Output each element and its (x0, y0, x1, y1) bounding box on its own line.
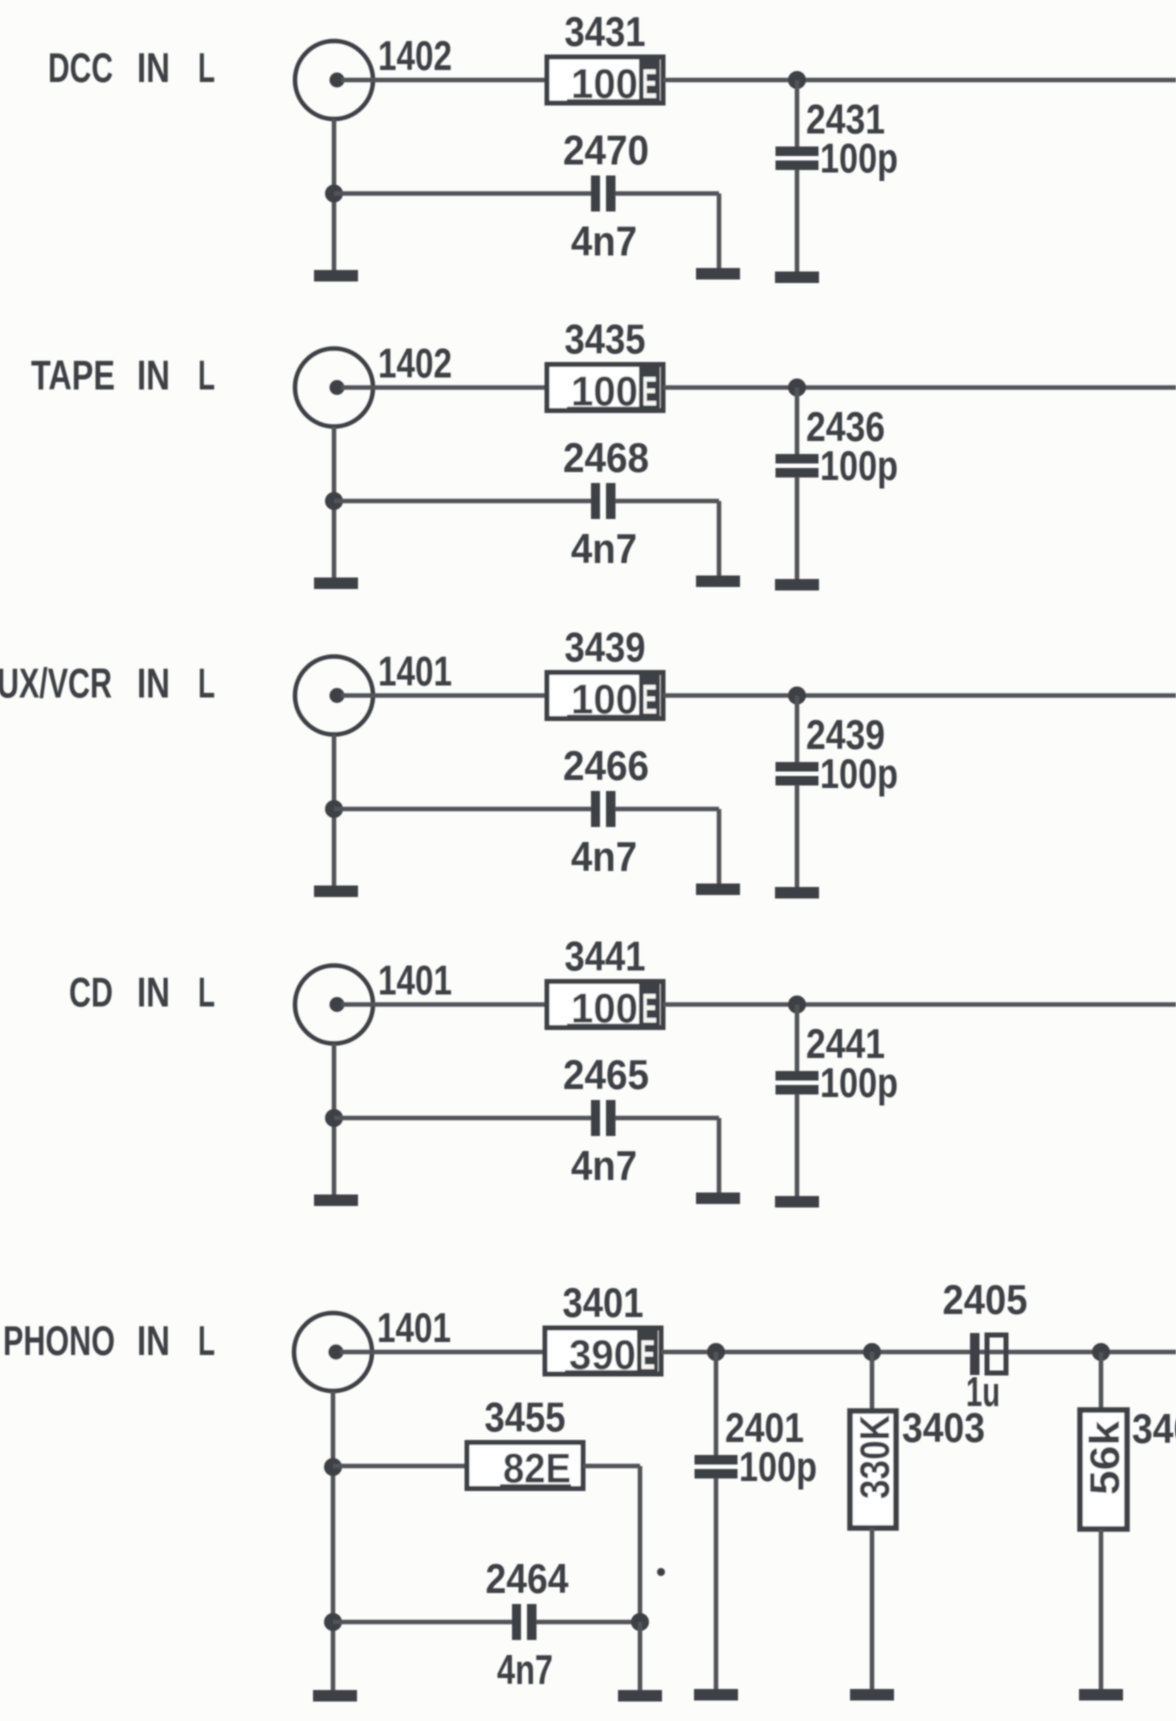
svg-text:4n7: 4n7 (497, 1646, 553, 1693)
ground (1079, 1689, 1123, 1701)
ground (314, 1195, 358, 1207)
svg-text:3431: 3431 (565, 8, 646, 55)
connector DCC IN L (RCA socket) (295, 41, 373, 119)
svg-text:CD: CD (69, 969, 113, 1016)
junction (325, 1109, 343, 1127)
connector AUX/VCR IN L (RCA socket) (295, 657, 373, 735)
wire (638, 1466, 643, 1622)
capacitor 2468 value 4n7 (591, 483, 616, 519)
junction (788, 379, 806, 397)
wire (583, 1464, 640, 1469)
svg-text:AUX/VCR: AUX/VCR (0, 660, 112, 707)
svg-text:4n7: 4n7 (571, 218, 637, 265)
svg-text:2465: 2465 (563, 1051, 649, 1098)
wire (615, 191, 719, 196)
wire (1099, 1529, 1104, 1689)
svg-text:100p: 100p (820, 442, 898, 489)
wire (717, 501, 722, 576)
svg-text:2464: 2464 (486, 1555, 570, 1602)
svg-text:1401: 1401 (377, 1304, 451, 1351)
wire (795, 80, 800, 149)
wire (334, 807, 592, 812)
ground (775, 272, 819, 284)
resistor 3441 value 100E (547, 982, 663, 1032)
ground (314, 578, 358, 590)
svg-text:100p: 100p (739, 1443, 817, 1490)
ground (314, 270, 358, 282)
wire (536, 1620, 640, 1625)
capacitor 2441 value 100p (776, 1071, 819, 1095)
wire (663, 78, 1176, 83)
junction (1092, 1343, 1110, 1361)
junction (631, 1613, 649, 1631)
junction (325, 185, 343, 203)
wire (331, 1391, 336, 1690)
wire (334, 1116, 592, 1121)
svg-text:1401: 1401 (378, 957, 452, 1004)
resistor 3404 value 56k (1080, 1410, 1128, 1529)
svg-text:1401: 1401 (378, 648, 452, 695)
svg-text:L: L (198, 969, 215, 1016)
svg-text:4n7: 4n7 (571, 833, 637, 880)
node PHONO input (3, 1317, 215, 1364)
svg-text:E: E (640, 1331, 655, 1378)
junction (324, 1458, 342, 1476)
svg-text:4n7: 4n7 (571, 1142, 637, 1189)
capacitor 2466 value 4n7 (591, 791, 616, 827)
ground (314, 886, 358, 898)
wire (1099, 1352, 1104, 1413)
svg-text:100p: 100p (820, 135, 898, 182)
wire (795, 1005, 800, 1074)
resistor 3455 value 82E (467, 1443, 583, 1492)
capacitor 2439 value 100p (776, 762, 819, 786)
node TAPE IN L input (31, 352, 215, 399)
wire (663, 693, 1176, 698)
ground (694, 1689, 738, 1701)
ground (313, 1690, 357, 1702)
wire (717, 809, 722, 884)
capacitor 2464 value 4n7 (512, 1604, 537, 1640)
svg-text:3401: 3401 (563, 1279, 644, 1326)
svg-text:2470: 2470 (563, 127, 649, 174)
svg-text:IN: IN (137, 44, 170, 91)
junction (325, 492, 343, 510)
ground (618, 1690, 662, 1702)
svg-text:100p: 100p (820, 1059, 898, 1106)
svg-text:3455: 3455 (485, 1394, 566, 1441)
wire (717, 1118, 722, 1193)
wire (795, 477, 800, 579)
wire (615, 807, 719, 812)
wire (341, 385, 547, 390)
svg-text:1402: 1402 (378, 340, 452, 387)
svg-text:E: E (642, 60, 657, 107)
junction (324, 1613, 342, 1631)
stray mark (657, 1568, 665, 1576)
svg-text:E: E (642, 368, 657, 415)
svg-text:3441: 3441 (565, 933, 646, 980)
wire (615, 1116, 719, 1121)
wire (661, 1350, 1176, 1355)
svg-text:1402: 1402 (378, 32, 452, 79)
svg-text:2405: 2405 (943, 1276, 1028, 1323)
svg-text:IN: IN (137, 1317, 170, 1364)
resistor 3403 value 330K (850, 1411, 898, 1528)
wire (333, 1620, 512, 1625)
wire (340, 1350, 544, 1355)
capacitor 2436 value 100p (776, 454, 819, 478)
svg-text:PHONO: PHONO (3, 1317, 115, 1364)
svg-text:3439: 3439 (565, 624, 646, 671)
capacitor 2405 value 1u (polarized) (970, 1333, 1006, 1375)
junction (788, 687, 806, 705)
ground (696, 576, 740, 588)
junction (788, 996, 806, 1014)
connector TAPE IN L (RCA socket) (295, 349, 373, 427)
svg-text:2468: 2468 (563, 434, 649, 481)
capacitor 2465 value 4n7 (591, 1100, 616, 1136)
junction (863, 1343, 881, 1361)
capacitor 2401 value 100p (695, 1455, 738, 1479)
wire (638, 1622, 643, 1690)
wire (663, 385, 1176, 390)
node CD IN L input (69, 969, 215, 1016)
wire (332, 735, 337, 886)
junction (788, 71, 806, 89)
wire (341, 78, 547, 83)
resistor 3401 value 390E (545, 1328, 661, 1378)
svg-text:2466: 2466 (563, 742, 649, 789)
wire (332, 427, 337, 578)
svg-text:330K: 330K (851, 1415, 898, 1499)
wire (714, 1352, 719, 1457)
wire (663, 1002, 1176, 1007)
ground (850, 1689, 894, 1701)
svg-text:IN: IN (137, 352, 170, 399)
wire (870, 1352, 875, 1414)
ground (775, 887, 819, 899)
node DCC IN L input (48, 44, 215, 91)
svg-text:L: L (198, 660, 215, 707)
svg-text:DCC: DCC (48, 44, 113, 91)
connector PHONO IN L (RCA socket) (294, 1313, 372, 1391)
svg-text:E: E (642, 676, 657, 723)
node AUX/VCR IN L input (0, 660, 215, 707)
capacitor 2470 value 4n7 (591, 176, 616, 212)
svg-text:3404: 3404 (1132, 1405, 1176, 1452)
ground (775, 1196, 819, 1208)
wire (795, 785, 800, 887)
svg-text:56k: 56k (1081, 1420, 1128, 1495)
wire (714, 1478, 719, 1689)
resistor 3439 value 100E (547, 673, 663, 723)
svg-text:1u: 1u (966, 1368, 1000, 1415)
wire (341, 693, 547, 698)
ground (775, 579, 819, 591)
wire (870, 1528, 875, 1689)
wire (333, 1464, 467, 1469)
svg-text:IN: IN (137, 969, 170, 1016)
svg-text:4n7: 4n7 (571, 525, 637, 572)
svg-text:L: L (198, 44, 215, 91)
resistor 3435 value 100E (547, 365, 663, 415)
svg-text:E: E (642, 985, 657, 1032)
wire (334, 191, 592, 196)
capacitor 2431 value 100p (776, 147, 819, 171)
svg-text:IN: IN (137, 660, 170, 707)
connector CD IN L (RCA socket) (295, 966, 373, 1044)
svg-text:L: L (198, 352, 215, 399)
wire (717, 194, 722, 269)
wire (341, 1002, 547, 1007)
junction (325, 800, 343, 818)
ground (696, 884, 740, 896)
junction (707, 1343, 725, 1361)
wire (332, 1044, 337, 1195)
ground (696, 1193, 740, 1205)
svg-text:TAPE: TAPE (31, 352, 115, 399)
ground (696, 268, 740, 280)
svg-text:3435: 3435 (565, 316, 646, 363)
svg-text:100p: 100p (820, 750, 898, 797)
wire (332, 119, 337, 270)
resistor 3431 value 100E (547, 57, 663, 107)
wire (795, 170, 800, 272)
wire (795, 1094, 800, 1196)
svg-text:L: L (198, 1317, 215, 1364)
wire (795, 388, 800, 457)
wire (334, 499, 592, 504)
wire (615, 499, 719, 504)
wire (795, 696, 800, 765)
